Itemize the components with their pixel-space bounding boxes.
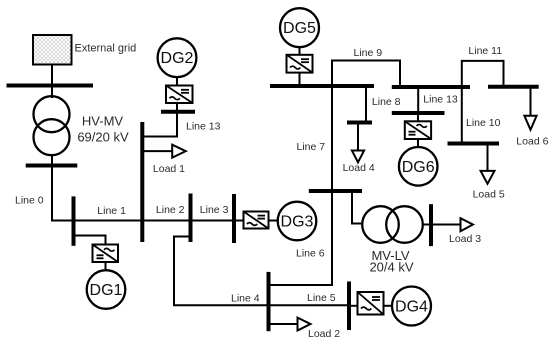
load 6 arrow (524, 116, 536, 130)
wire inverter to DG4 (384, 305, 393, 307)
bus top (DG5 bus) (270, 84, 374, 88)
svg-text:Load 5: Load 5 (473, 189, 505, 201)
svg-text:Load 3: Load 3 (449, 233, 481, 245)
wire bus C to inverter DG1 (74, 236, 106, 245)
svg-text:Line 8: Line 8 (372, 96, 401, 108)
svg-text:Line 2: Line 2 (156, 204, 185, 216)
svg-text:Line 7: Line 7 (297, 141, 326, 153)
svg-text:Line 0: Line 0 (15, 195, 44, 207)
wire Line 9 (332, 61, 400, 87)
bus DG6 (392, 111, 445, 115)
wire inverter to DG3 (269, 220, 279, 222)
bus DG2 (161, 110, 195, 114)
svg-text:Line 9: Line 9 (354, 47, 383, 59)
bus G (267, 272, 271, 331)
wire Load 6 (530, 87, 532, 116)
wire Line 10 (461, 87, 463, 144)
bus I (429, 204, 433, 246)
svg-text:DG3: DG3 (281, 214, 314, 231)
svg-text:Line 6: Line 6 (296, 248, 325, 260)
bus L (448, 142, 500, 146)
wire Line 5 (269, 304, 350, 306)
load 1 arrow (172, 145, 186, 158)
inverter DG1 (93, 245, 119, 263)
bus E (189, 194, 193, 243)
inverter DG6 (405, 121, 431, 139)
wire Line 11 (462, 61, 504, 87)
wire Load 3 (431, 224, 461, 226)
transformer T1 HV-MV winding 2 (34, 119, 70, 155)
wire inverter DG5 to top bus (299, 73, 301, 86)
svg-text:External grid: External grid (75, 43, 137, 55)
transformer T2 MV-LV winding 2 (386, 206, 423, 243)
svg-text:Line 1: Line 1 (97, 205, 126, 217)
wire inverter to DG6 (417, 139, 419, 148)
svg-text:Line 10: Line 10 (466, 117, 501, 129)
bus J (top right) (392, 85, 470, 89)
load 4 arrow (352, 151, 364, 163)
wire grid to bus A (51, 65, 53, 86)
svg-text:20/4 kV: 20/4 kV (369, 260, 413, 275)
external grid box (33, 35, 72, 65)
wire bus A to transformer T1 (51, 86, 53, 99)
svg-text:Line 11: Line 11 (468, 45, 502, 57)
wire bus H to inverter DG4 (349, 305, 358, 307)
wire Line 13 (DG2 to bus D) (142, 112, 177, 137)
wire inverter DG2 to bus (176, 103, 178, 112)
generator DG5 (280, 8, 319, 47)
wire Line 13 right (bus J to DG6 bus) (417, 87, 419, 113)
generator DG3 (278, 202, 317, 241)
wire bus MV to transformer T2 (352, 191, 362, 224)
wire Load 4 (357, 123, 359, 151)
bus B (26, 164, 78, 168)
wire inverter to DG1 (105, 262, 107, 271)
wire Load 5 (487, 144, 489, 172)
wire Line 0 vertical (51, 166, 53, 222)
generator DG6 (399, 147, 438, 186)
wire Line 7 and Line 6 (269, 86, 333, 285)
svg-text:DG4: DG4 (395, 299, 428, 316)
generator DG2 (158, 38, 197, 77)
svg-text:Load 6: Load 6 (516, 136, 548, 148)
svg-text:Line 4: Line 4 (231, 293, 260, 305)
svg-text:Line 13: Line 13 (423, 94, 458, 106)
load 2 arrow (298, 318, 311, 331)
wire main feeder (Line 1 / Line 2 / Line 3) (51, 220, 243, 222)
bus K (488, 85, 539, 89)
svg-text:HV-MV: HV-MV (82, 114, 124, 129)
wire Line 8 (365, 86, 367, 122)
svg-text:DG2: DG2 (161, 50, 194, 67)
wire bus F to inverter DG3 (234, 220, 244, 222)
wire Load 2 (269, 323, 298, 325)
wire Line 4 (174, 237, 269, 306)
wire DG2 to inverter (176, 77, 178, 86)
svg-text:Load 4: Load 4 (343, 162, 375, 174)
bus A (7, 84, 94, 88)
inverter DG5 (287, 55, 313, 73)
inverter DG3 (244, 212, 269, 229)
bus MV (middle) (309, 189, 362, 193)
svg-text:DG6: DG6 (402, 159, 435, 176)
svg-text:DG1: DG1 (90, 282, 123, 299)
wire DG5 to inverter (299, 48, 301, 55)
wire T2 to bus I (423, 224, 431, 226)
wire Load 1 (142, 150, 172, 152)
transformer T2 MV-LV winding 1 (362, 206, 399, 243)
wire bus to inverter DG6 (417, 113, 419, 122)
bus H (347, 282, 351, 331)
svg-text:69/20 kV: 69/20 kV (77, 130, 129, 145)
bus D (140, 122, 144, 242)
transformer T1 HV-MV winding 1 (34, 96, 70, 132)
inverter DG4 (358, 292, 384, 315)
generator DG1 (87, 270, 126, 309)
wire transformer to bus B (51, 154, 53, 166)
svg-text:Line 5: Line 5 (307, 292, 336, 304)
svg-text:Line 13: Line 13 (186, 121, 221, 133)
svg-text:Line 3: Line 3 (200, 204, 229, 216)
bus F (232, 194, 236, 243)
svg-text:Load 1: Load 1 (153, 163, 185, 175)
svg-text:DG5: DG5 (283, 20, 316, 37)
load 5 arrow (481, 171, 495, 184)
generator DG4 (392, 287, 431, 326)
load 3 arrow (461, 218, 473, 231)
bus C (72, 196, 76, 245)
inverter DG2 (166, 86, 193, 104)
svg-text:Load 2: Load 2 (308, 328, 340, 340)
bus Load 4 (347, 121, 372, 125)
